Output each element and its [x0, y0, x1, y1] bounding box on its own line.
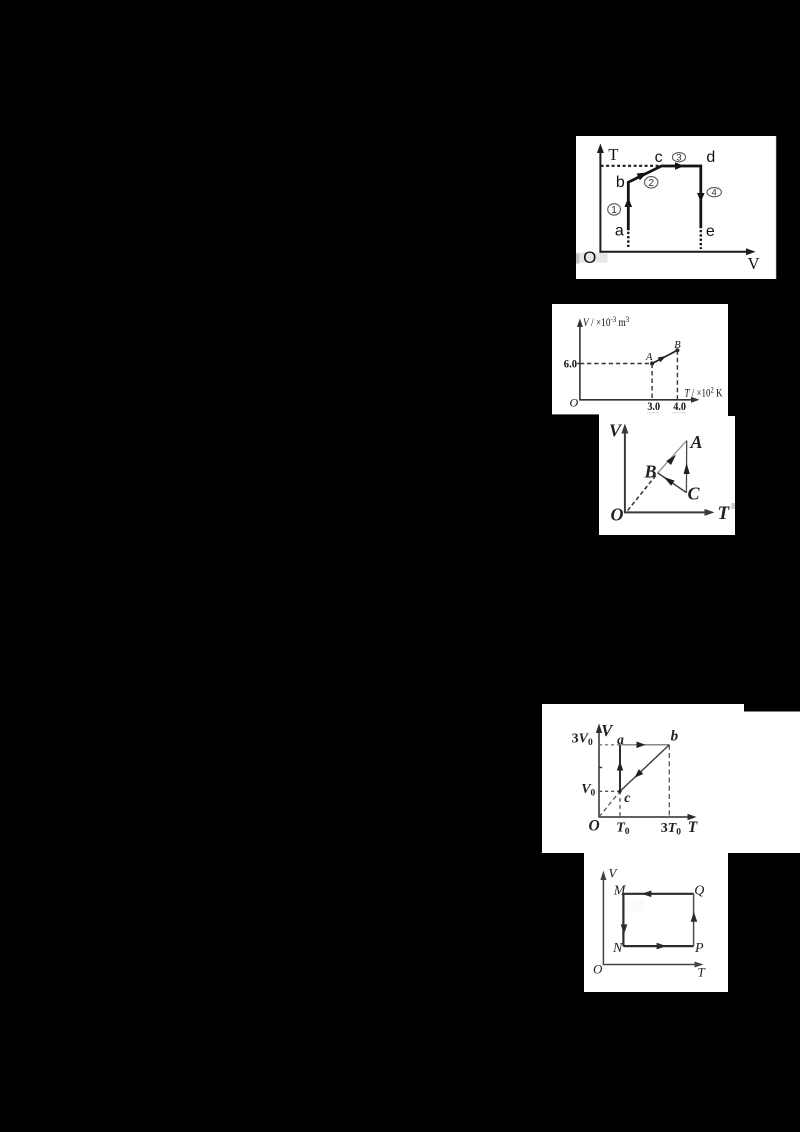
- svg-text:a: a: [617, 732, 624, 747]
- axis T (horizontal): [579, 397, 699, 403]
- arrow on c-a (up): [617, 762, 624, 771]
- stray gray mark left of O: [576, 254, 579, 264]
- svg-text:3.0: 3.0: [647, 400, 660, 413]
- tick at 6.0 on V axis: [577, 363, 580, 365]
- svg-text:a: a: [615, 222, 624, 239]
- arrow on M-N (down): [621, 924, 628, 934]
- dashed line O to B: [628, 475, 657, 511]
- dashed line O to c: [599, 791, 620, 817]
- dashed drop line from B: [676, 350, 678, 400]
- svg-text:M: M: [613, 883, 627, 898]
- svg-text:O: O: [611, 505, 624, 525]
- circled number 1: [608, 204, 621, 216]
- svg-text:3: 3: [676, 153, 681, 164]
- svg-text:d: d: [706, 149, 715, 166]
- dashed drop from c: [619, 791, 621, 817]
- wire B-A: [658, 441, 687, 473]
- svg-text:C: C: [688, 483, 701, 503]
- svg-text:V: V: [748, 254, 760, 273]
- arrow on P-Q (up): [691, 912, 698, 922]
- svg-text:4: 4: [712, 188, 717, 199]
- arrow on segment b-c: [637, 169, 649, 180]
- dashed drop from b: [668, 745, 670, 817]
- black notch top-right (page background): [744, 704, 800, 712]
- arrow on a-b (right): [637, 742, 646, 749]
- svg-text:T / ×102 K: T / ×102 K: [685, 385, 723, 400]
- arrow on segment d-e (down): [697, 193, 705, 202]
- dashed level V0 to c: [599, 790, 620, 792]
- axis V (vertical): [621, 424, 628, 513]
- wire C-B: [658, 473, 687, 493]
- svg-text:c: c: [655, 149, 663, 166]
- svg-text:4.0: 4.0: [673, 400, 686, 413]
- wire c-a (vertical): [619, 745, 621, 792]
- svg-text:T0: T0: [616, 820, 630, 837]
- svg-text:O: O: [589, 817, 600, 834]
- wire Q-M (top edge): [623, 893, 693, 895]
- svg-text:e: e: [706, 223, 715, 240]
- circled number 4: [707, 188, 721, 199]
- dashed level 3V0 to a: [599, 744, 620, 746]
- dotted segment below e: [700, 230, 702, 249]
- arrow on Q-M (left): [641, 891, 651, 898]
- svg-text:T: T: [718, 503, 731, 524]
- figure panel 5: V-T rectangle cycle MNPQ: [584, 853, 728, 992]
- svg-text:Q: Q: [694, 883, 704, 898]
- axis T (vertical): [597, 144, 604, 253]
- wire N-P (bottom edge): [623, 945, 693, 947]
- arrow on b-c: [632, 769, 643, 780]
- svg-text:V0: V0: [581, 782, 595, 799]
- axis V (vertical): [596, 724, 602, 818]
- node A dot: [650, 361, 654, 365]
- figure panel 4: V-T cycle abc with 3V0, V0, T0, 3T0: [542, 704, 800, 853]
- svg-text:B: B: [674, 340, 681, 351]
- svg-text:T: T: [688, 819, 698, 836]
- svg-text:1: 1: [611, 204, 617, 216]
- svg-text:3T0: 3T0: [661, 821, 682, 838]
- wire A-C (vertical): [685, 441, 687, 493]
- axis T (horizontal): [598, 814, 696, 820]
- faint underline mark below 4.0: [672, 412, 686, 414]
- figure panel 1: T-V cycle diagram abcde: [576, 136, 777, 279]
- axis V (vertical): [600, 871, 606, 965]
- arrow on C-A (up): [684, 463, 690, 474]
- node dot c: [618, 790, 621, 793]
- value label 4.0: [673, 400, 686, 413]
- axis V (vertical): [577, 319, 583, 400]
- dark scan line at right box edge: [776, 136, 778, 279]
- black page corner bottom-left of panel: [552, 414, 599, 416]
- axis T (horizontal): [624, 509, 715, 516]
- svg-text:A: A: [690, 432, 703, 452]
- circled number 3: [672, 153, 685, 164]
- svg-text:T: T: [608, 145, 618, 164]
- faint patch inside rectangle: [625, 900, 644, 913]
- arrow on N-P (right): [657, 943, 667, 950]
- wire b-c (diagonal): [620, 745, 669, 792]
- figure panel 3: V-T triangle cycle ABC: [599, 416, 735, 535]
- dashed drop line from A: [651, 364, 653, 400]
- wire a-b (horizontal): [620, 744, 669, 746]
- wire P-Q (right edge): [693, 894, 695, 946]
- svg-text:T: T: [698, 965, 706, 980]
- svg-text:c: c: [624, 791, 631, 806]
- wire A-B: [652, 350, 677, 363]
- axis T (horizontal): [603, 962, 704, 968]
- svg-text:O: O: [583, 248, 596, 267]
- svg-text:P: P: [694, 941, 704, 956]
- svg-text:V / ×10-3 m3: V / ×10-3 m3: [583, 314, 629, 329]
- svg-text:b: b: [616, 174, 625, 191]
- svg-text:O: O: [570, 396, 579, 410]
- arrow on B-A: [666, 453, 678, 465]
- value label 3.0: [647, 400, 660, 413]
- node B dot: [675, 348, 679, 352]
- circled number 2: [645, 177, 658, 190]
- faint underline mark below 3.0: [647, 412, 659, 414]
- svg-text:6.0: 6.0: [564, 358, 578, 371]
- dashed level line 6.0 to A: [580, 363, 652, 365]
- svg-text:O: O: [593, 962, 603, 977]
- svg-text:V: V: [609, 421, 623, 441]
- arrow on A-B: [658, 354, 668, 363]
- dotted segment below a: [627, 232, 629, 249]
- wire M-N (left edge): [622, 894, 624, 946]
- svg-text:V: V: [609, 866, 619, 881]
- tick on V axis: [599, 767, 602, 769]
- faint gray band behind O: [576, 253, 608, 263]
- dotted level line from T axis to d: [601, 165, 702, 167]
- arrow on segment c-d (right): [675, 162, 684, 170]
- svg-text:A: A: [645, 352, 653, 363]
- axis V (horizontal): [599, 248, 755, 255]
- svg-text:b: b: [671, 729, 679, 745]
- arrow on C-B: [662, 474, 675, 485]
- stray gray mark right edge: [731, 503, 735, 509]
- wire a-b-c-d-e solid cycle path: [628, 166, 701, 230]
- svg-text:B: B: [644, 461, 657, 481]
- axis title V / x10^-3 m^3: [583, 314, 629, 329]
- figure panel 2: V-T graph with values 6.0, 3.0, 4.0: [552, 304, 728, 416]
- axis title T / x10^2 K: [685, 385, 723, 400]
- svg-text:N: N: [612, 941, 623, 956]
- svg-text:3V0: 3V0: [572, 731, 593, 748]
- svg-text:V: V: [601, 721, 614, 740]
- value label 6.0: [564, 358, 578, 371]
- svg-text:2: 2: [648, 177, 654, 189]
- arrow on segment a-b (up): [625, 198, 633, 208]
